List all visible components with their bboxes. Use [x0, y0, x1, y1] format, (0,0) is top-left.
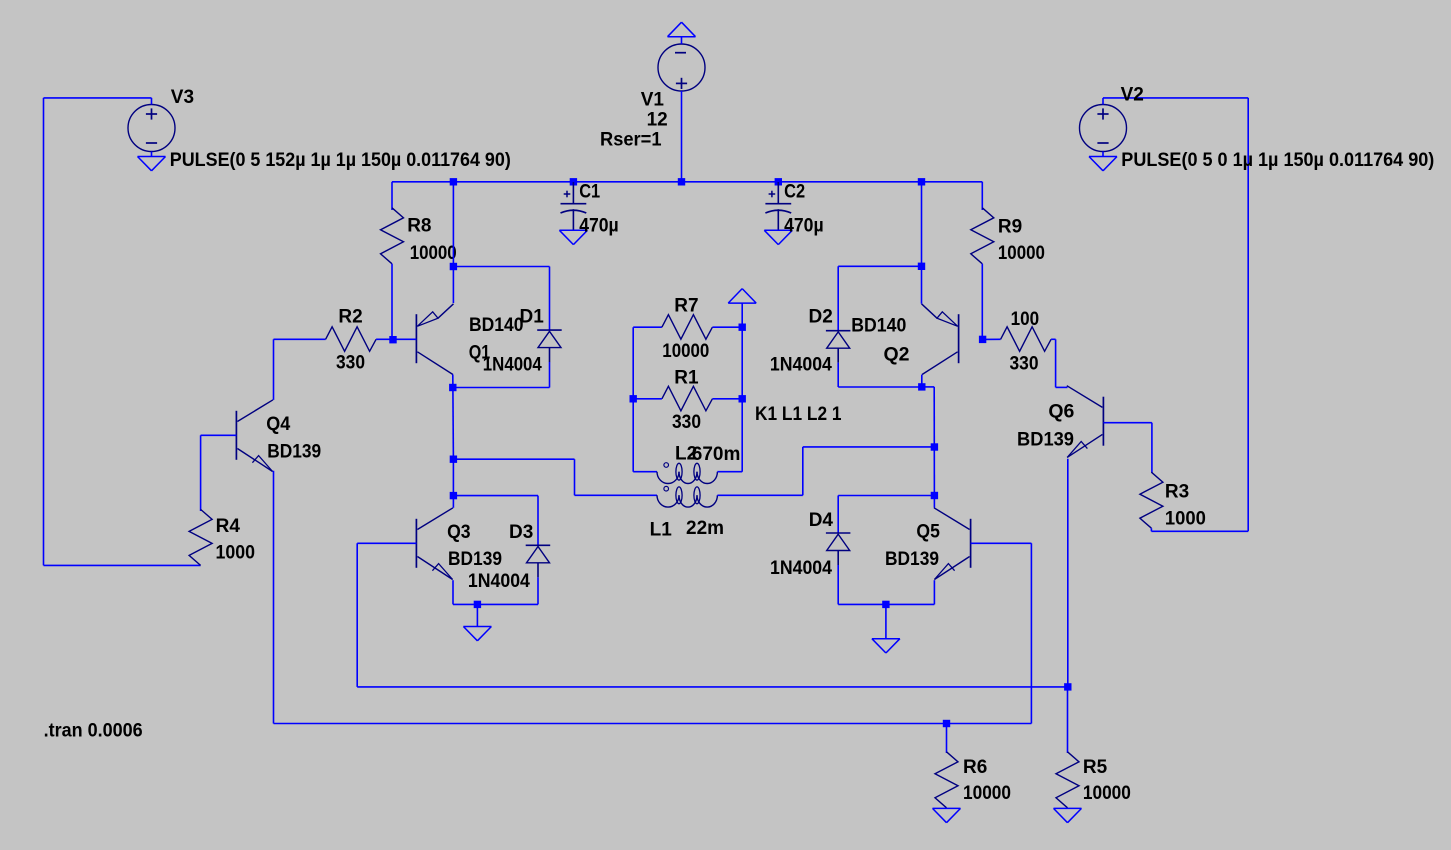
wire Q3 base	[357, 542, 416, 544]
ground below Q3	[463, 626, 491, 628]
wire Q4 base down to R4	[200, 435, 202, 511]
wire cross-couple rail to Q6 emitter	[357, 686, 1068, 688]
svg-text:D3: D3	[509, 522, 533, 543]
wire L1 right link horizontal	[803, 446, 935, 448]
transistor Q1	[415, 314, 417, 363]
wire Q6 emitter vertical	[1067, 459, 1069, 687]
svg-text:Rser=1: Rser=1	[600, 130, 662, 151]
wire R6 stub	[946, 724, 948, 754]
wire V1 to bus	[681, 91, 683, 182]
svg-text:Q5: Q5	[916, 522, 940, 543]
wire Q2 collector stub	[921, 375, 923, 387]
node L1-link junction	[931, 443, 938, 450]
capacitor C2	[775, 178, 782, 185]
ground below V3	[151, 152, 153, 157]
wire D2 upper vertical	[837, 266, 839, 330]
wire 330 right vertical	[1055, 339, 1057, 387]
svg-text:D4: D4	[809, 510, 834, 531]
svg-text:V2: V2	[1121, 85, 1144, 106]
transistor Q4	[235, 411, 237, 460]
svg-text:R8: R8	[407, 216, 431, 237]
wire L1 left lead	[575, 494, 658, 496]
wire right mid vertical	[933, 387, 935, 508]
wire Q3 base left vertical	[356, 543, 358, 687]
wire Q3 emitter stub	[452, 580, 454, 604]
svg-text:PULSE(0 5 0 1µ 1µ 150µ 0.01176: PULSE(0 5 0 1µ 1µ 150µ 0.011764 90)	[1121, 150, 1434, 171]
resistor R8	[391, 182, 393, 210]
svg-text:10000: 10000	[963, 783, 1011, 804]
resistor R1	[662, 386, 713, 411]
wire D1 bottom link	[453, 387, 550, 389]
svg-text:100: 100	[1011, 309, 1040, 330]
wire D1 top link	[453, 266, 549, 268]
wire Q5 ground stub	[885, 604, 887, 638]
wire R7 left vertical	[632, 327, 634, 472]
node Q5 ground junction	[882, 601, 889, 608]
inductor L1	[657, 495, 679, 507]
wire D2 bottom link	[838, 386, 922, 388]
wire V2 right vertical	[1247, 98, 1249, 531]
svg-text:V3: V3	[171, 87, 194, 108]
wire D2 top link	[838, 265, 921, 267]
wire top bus	[392, 181, 982, 183]
wire Q4 emitter vertical	[273, 471, 275, 724]
node collector-L1 junction	[450, 456, 457, 463]
svg-text:1000: 1000	[216, 543, 256, 564]
svg-text:1N4004: 1N4004	[468, 571, 530, 592]
transistor Q2	[958, 314, 960, 363]
wire D3 lower vertical	[537, 577, 539, 604]
wire Q6 base down to R3	[1151, 423, 1153, 473]
node R8-R2-Q1 base junction	[389, 336, 396, 343]
transistor Q6	[1102, 397, 1104, 446]
diode D1	[537, 329, 562, 331]
diode D2	[826, 330, 851, 332]
ground below Q5	[872, 638, 900, 640]
node V1-bus junction	[678, 178, 685, 185]
wire V2 top horizontal	[1103, 97, 1248, 99]
wire collector jog horizontal	[922, 386, 934, 388]
svg-text:BD139: BD139	[1017, 430, 1074, 451]
node Q3 ground junction	[474, 601, 481, 608]
wire V3 left vertical	[43, 98, 45, 566]
svg-text:10000: 10000	[662, 341, 709, 362]
svg-text:R5: R5	[1083, 757, 1108, 778]
wire Q3 bottom link	[453, 603, 538, 605]
wire V3 top stub	[151, 98, 153, 105]
wire D1 upper vertical	[549, 267, 551, 331]
wire V1 flag stub	[681, 37, 683, 44]
node R1 right junction	[739, 395, 746, 402]
svg-text:Q4: Q4	[266, 414, 290, 435]
wire Q6 base	[1103, 422, 1152, 424]
node R7 right junction	[739, 324, 746, 331]
svg-text:330: 330	[672, 412, 701, 433]
svg-text:BD139: BD139	[267, 441, 321, 462]
svg-text:BD139: BD139	[885, 549, 939, 570]
inductor L1 phase dot	[664, 486, 669, 491]
svg-text:BD140: BD140	[469, 315, 524, 336]
svg-text:D2: D2	[809, 306, 833, 327]
wire jog to Q6 collector	[1056, 386, 1068, 388]
wire D3 top link	[453, 495, 538, 497]
power flag above V1	[668, 36, 696, 38]
svg-text:22m: 22m	[686, 518, 724, 539]
svg-text:R9: R9	[998, 216, 1022, 237]
wire collector node down to Q3	[452, 459, 454, 495]
wire R5 stub	[1067, 687, 1069, 753]
wire V3 top horizontal	[44, 97, 152, 99]
wire R3 bottom link	[1151, 530, 1248, 532]
wire bottom rail to Q5 base	[274, 723, 1032, 725]
resistor R2	[274, 338, 326, 340]
transistor Q3	[415, 519, 417, 568]
node Q3 collector junction	[450, 492, 457, 499]
ground below R5	[1054, 807, 1082, 809]
wire L1 right link vertical	[802, 447, 804, 495]
wire D4 upper vertical	[837, 496, 839, 534]
svg-text:470µ: 470µ	[784, 215, 824, 236]
wire D3 upper vertical	[537, 496, 539, 546]
node Q1 collector junction	[449, 384, 456, 391]
voltage source V1	[658, 44, 705, 91]
svg-text:1N4004: 1N4004	[770, 354, 832, 375]
svg-text:R6: R6	[963, 757, 987, 778]
svg-text:V1: V1	[641, 89, 665, 110]
ground below R6	[933, 807, 961, 809]
node bus-Q2 junction	[918, 178, 925, 185]
resistor R9	[981, 182, 983, 210]
svg-text:470µ: 470µ	[579, 215, 619, 236]
wire Q1 collector vertical	[452, 375, 455, 460]
svg-text:Q6: Q6	[1048, 402, 1074, 423]
svg-text:10000: 10000	[1083, 783, 1131, 804]
wire L2 left lead	[633, 471, 657, 473]
svg-text:.tran 0.0006: .tran 0.0006	[44, 720, 143, 741]
svg-text:R2: R2	[338, 307, 362, 328]
wire L1 left link vertical	[574, 459, 576, 495]
svg-text:Q2: Q2	[884, 344, 910, 365]
svg-text:R3: R3	[1165, 482, 1189, 503]
svg-text:L1: L1	[650, 519, 673, 540]
svg-text:670m: 670m	[692, 444, 741, 465]
resistor R4	[189, 509, 212, 565]
svg-text:R7: R7	[674, 295, 698, 316]
node R6 junction	[943, 720, 950, 727]
svg-text:K1 L1 L2 1: K1 L1 L2 1	[755, 404, 842, 425]
node Q6 emitter - R5 junction	[1064, 683, 1071, 690]
resistor 100 (base of Q6)	[983, 338, 1001, 340]
node Q2 emitter node	[918, 263, 925, 270]
wire D4 lower vertical	[837, 565, 839, 604]
svg-text:330: 330	[1010, 354, 1039, 375]
svg-text:R4: R4	[216, 516, 241, 537]
svg-text:PULSE(0 5 152µ 1µ 1µ 150µ 0.01: PULSE(0 5 152µ 1µ 1µ 150µ 0.011764 90)	[170, 150, 511, 171]
svg-text:1N4004: 1N4004	[770, 558, 832, 579]
node Q2 collector junction	[918, 383, 925, 390]
wire Q3 ground stub	[476, 604, 478, 626]
capacitor C1	[570, 178, 577, 185]
wire R7-L2 right vertical	[741, 327, 743, 472]
wire Q4 base	[201, 434, 237, 436]
wire Q5 base vertical	[1030, 543, 1032, 723]
svg-text:10000: 10000	[998, 243, 1045, 264]
svg-text:C2: C2	[784, 182, 805, 203]
ground below V2	[1102, 152, 1104, 157]
svg-text:BD140: BD140	[851, 316, 906, 337]
wire D1 lower vertical	[549, 362, 551, 388]
wire Q4 collector vertical	[273, 339, 275, 400]
svg-text:R1: R1	[674, 367, 699, 388]
svg-text:12: 12	[647, 109, 668, 130]
node R1 left junction	[630, 395, 637, 402]
wire Q1 emitter vertical	[452, 182, 454, 303]
wire D2 lower vertical	[837, 363, 839, 387]
svg-text:1N4004: 1N4004	[483, 354, 542, 375]
wire L2 right lead	[717, 471, 742, 473]
voltage source V3	[128, 105, 175, 152]
power flag above R7	[728, 302, 756, 304]
voltage source V2	[1080, 105, 1127, 152]
wire V3 bottom to R4	[44, 564, 201, 566]
svg-text:10000: 10000	[410, 243, 457, 264]
node Q5 collector junction	[931, 492, 938, 499]
resistor R3	[1140, 472, 1163, 528]
wire Q5 base	[971, 542, 1032, 544]
diode D4	[826, 532, 851, 534]
node bus-Q1 junction	[450, 178, 457, 185]
diode D3	[526, 544, 551, 546]
svg-text:Q1: Q1	[469, 343, 491, 364]
resistor R5	[1056, 752, 1079, 808]
inductor L2 phase dot	[664, 463, 669, 468]
svg-text:Q3: Q3	[447, 522, 471, 543]
svg-text:1000: 1000	[1165, 508, 1206, 529]
wire V2 top stub	[1102, 98, 1104, 105]
inductor L2	[657, 472, 679, 484]
node R9-Q2 base junction	[979, 336, 986, 343]
transistor Q5	[970, 519, 972, 568]
wire Q5 emitter stub	[933, 580, 935, 604]
wire D4 top link	[838, 495, 934, 497]
svg-text:BD139: BD139	[448, 549, 502, 570]
wire L1 left link horizontal	[453, 458, 574, 460]
svg-text:330: 330	[336, 353, 365, 374]
wire Q3 collector stub	[452, 496, 454, 508]
wire Q2 emitter vertical	[921, 182, 923, 304]
resistor R6	[935, 752, 958, 808]
resistor R7	[633, 326, 662, 328]
node Q1 emitter node	[450, 263, 457, 270]
svg-text:C1: C1	[579, 182, 600, 203]
wire Q5 bottom link	[838, 603, 934, 605]
wire L1 right lead	[717, 494, 802, 496]
